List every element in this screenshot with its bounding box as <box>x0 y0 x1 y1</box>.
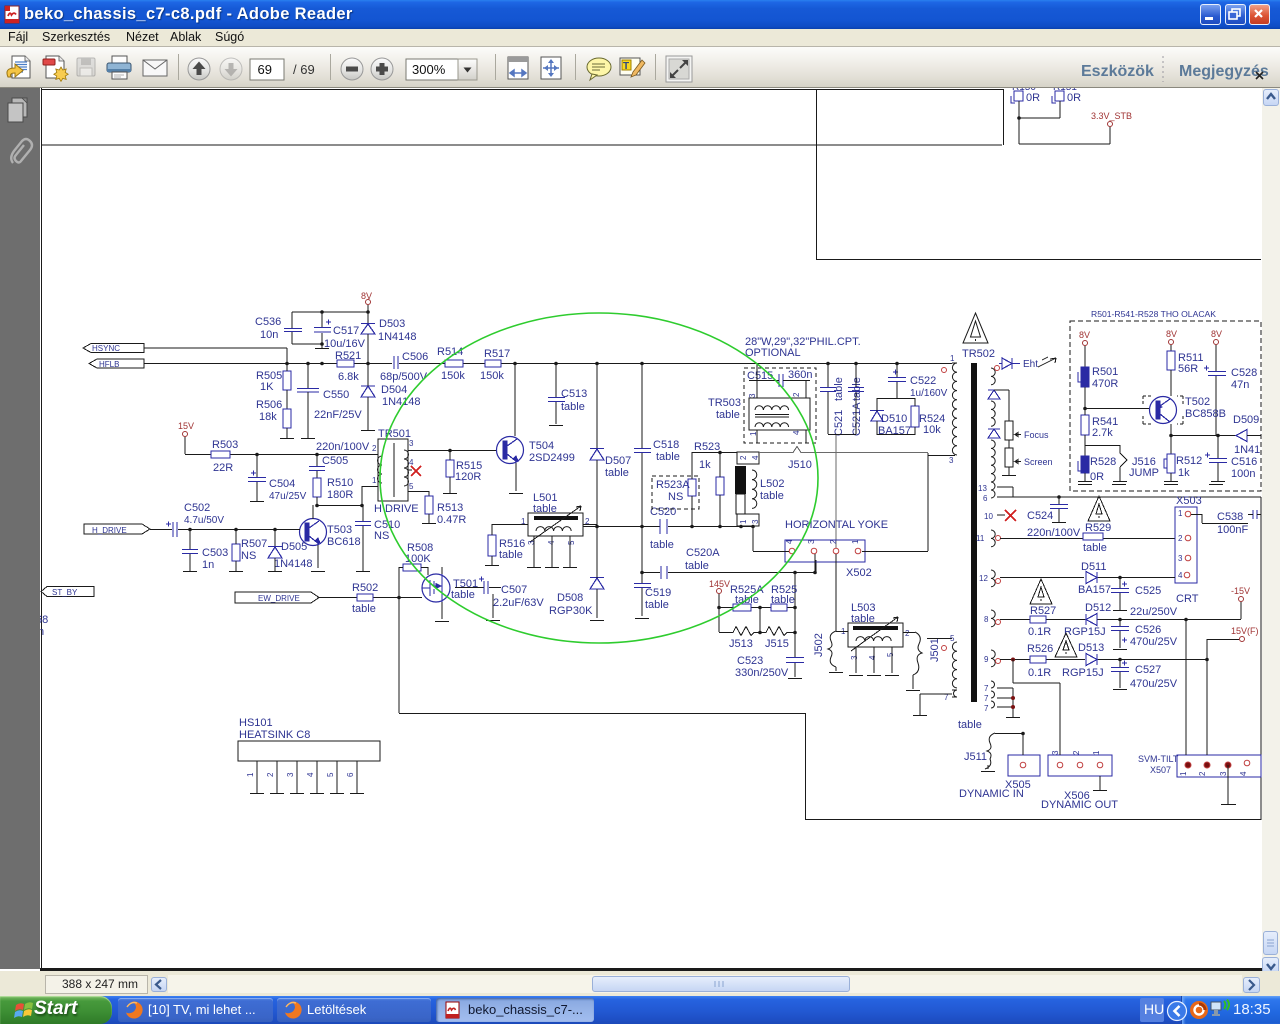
svg-text:0R: 0R <box>1026 92 1040 104</box>
svg-text:6.8k: 6.8k <box>338 371 359 383</box>
svg-text:L502: L502 <box>760 478 784 490</box>
resistor R541 2.7k <box>1081 409 1118 456</box>
HSYNC port <box>83 344 287 364</box>
svg-text:0R: 0R <box>1067 92 1081 104</box>
svg-text:Eszközök: Eszközök <box>1081 63 1154 80</box>
resistor R508 100K <box>399 542 433 575</box>
svg-text:R512: R512 <box>1176 455 1202 467</box>
resistor R505 1K <box>256 363 291 409</box>
svg-text:1N4148: 1N4148 <box>274 558 313 570</box>
svg-text:1K: 1K <box>260 381 274 393</box>
TR502 core <box>971 363 977 702</box>
svg-text:HORIZONTAL YOKE: HORIZONTAL YOKE <box>785 519 888 531</box>
svg-text:OPTIONAL: OPTIONAL <box>745 347 801 359</box>
svg-text:0.47R: 0.47R <box>437 514 466 526</box>
resistor R529 table (fusible) <box>1083 496 1111 554</box>
svg-text:table: table <box>685 560 709 572</box>
wires 0R to 3.3V_STB <box>1019 101 1110 144</box>
TR502 left winding lower + pin 5 <box>950 634 957 688</box>
second horizontal wire <box>42 144 1002 146</box>
TR502 pin 12 row: D511 <box>979 561 1175 596</box>
inductor L502 table <box>735 452 784 526</box>
separator <box>495 54 496 80</box>
diode D509 1N4148 <box>1169 414 1261 456</box>
svg-text:7: 7 <box>984 684 989 693</box>
main rail y=363 <box>144 363 952 365</box>
svg-text:Eht: Eht <box>1023 359 1038 370</box>
svg-text:CRT: CRT <box>1176 593 1199 605</box>
node -15V <box>1231 586 1250 619</box>
icon: previous view (page with yellow arrow) <box>7 56 30 78</box>
svg-text:X502: X502 <box>846 567 872 579</box>
resistor R507 NS <box>229 529 267 572</box>
svg-text:BA157: BA157 <box>878 425 911 437</box>
svg-text:1: 1 <box>246 772 255 777</box>
svg-text:C516: C516 <box>1231 456 1257 468</box>
svg-text:R506: R506 <box>256 399 282 411</box>
jumper J515 <box>754 627 797 651</box>
svg-text:D509: D509 <box>1233 414 1259 426</box>
resistor R525 table <box>771 584 797 611</box>
svg-text:5: 5 <box>567 540 576 545</box>
svg-text:J513: J513 <box>729 638 753 650</box>
svg-text:0.1R: 0.1R <box>1028 626 1051 638</box>
capacitor C513 table <box>548 363 587 426</box>
svg-text:8V: 8V <box>1211 329 1222 339</box>
svg-text:2.7k: 2.7k <box>1092 427 1113 439</box>
capacitor C504 47u/25V <box>248 454 307 502</box>
svg-text:180R: 180R <box>327 489 353 501</box>
resistor R521 6.8k <box>335 350 361 383</box>
separator <box>575 54 576 80</box>
icon: print <box>107 56 131 79</box>
resistor R517 150k <box>480 348 510 382</box>
svg-text:6: 6 <box>983 494 988 503</box>
HFLB port <box>89 359 144 369</box>
svg-text:D512: D512 <box>1085 602 1111 614</box>
resistor R513 0.47R <box>422 496 466 526</box>
svg-text:table: table <box>760 490 784 502</box>
svg-text:Focus: Focus <box>1024 430 1049 440</box>
diode D510 BA157 <box>870 398 911 437</box>
transistor T501 MOSFET <box>422 567 478 622</box>
svg-text:3: 3 <box>409 439 414 448</box>
vertical wire right of top box <box>1003 89 1005 145</box>
svg-text:145V: 145V <box>709 579 730 589</box>
svg-text:/ 69: / 69 <box>293 62 315 77</box>
svg-text:J511: J511 <box>964 751 987 763</box>
icon: zoom in <box>371 58 393 80</box>
svg-text:360n: 360n <box>788 369 812 381</box>
svg-text:R517: R517 <box>484 348 510 360</box>
svg-text:table: table <box>650 539 674 551</box>
svg-text:4: 4 <box>1178 571 1183 580</box>
svg-text:1k: 1k <box>699 459 711 471</box>
window title bar <box>0 0 1280 29</box>
svg-text:1k: 1k <box>1178 467 1190 479</box>
svg-text:T504: T504 <box>529 440 554 452</box>
capacitor C522 1u/160V <box>877 363 948 399</box>
svg-text:1: 1 <box>372 476 377 485</box>
svg-text:13: 13 <box>978 484 987 493</box>
svg-text:3: 3 <box>1051 750 1060 755</box>
TR502 pin 11 <box>976 530 1175 547</box>
svg-text:H DRIVE: H DRIVE <box>374 503 419 515</box>
ground bars in dashed box <box>1078 484 1223 486</box>
wire 8V down <box>292 305 368 348</box>
svg-text:table: table <box>656 451 680 463</box>
svg-text:12: 12 <box>979 574 988 583</box>
svg-text:47n: 47n <box>1231 379 1249 391</box>
svg-text:10k: 10k <box>923 424 941 436</box>
svg-text:2: 2 <box>1198 771 1207 776</box>
svg-text:T503: T503 <box>327 524 352 536</box>
svg-text:2: 2 <box>739 455 748 460</box>
svg-text:2: 2 <box>266 772 275 777</box>
resistor R150 0R <box>1011 82 1040 104</box>
svg-text:1: 1 <box>1179 771 1188 776</box>
tray <box>1140 998 1164 1022</box>
icon: text highlight <box>620 58 645 77</box>
separator <box>178 54 179 80</box>
svg-text:C520: C520 <box>650 506 676 518</box>
capacitor C538 100nF <box>1191 510 1261 536</box>
separator <box>655 54 656 80</box>
svg-text:1: 1 <box>1178 509 1183 518</box>
flyback TR502 symbol <box>962 313 995 360</box>
svg-text:300%: 300% <box>412 62 446 77</box>
svg-text:3: 3 <box>286 772 295 777</box>
svg-text:C521A: C521A <box>851 402 863 436</box>
resistor R511 56R <box>1167 351 1203 396</box>
svg-text:table: table <box>605 467 629 479</box>
svg-text:330n/250V: 330n/250V <box>735 667 789 679</box>
svg-text:470u/25V: 470u/25V <box>1130 678 1178 690</box>
start button <box>0 996 112 1024</box>
capacitor C528 47n <box>1204 366 1257 436</box>
svg-text:Megjegyzés: Megjegyzés <box>1179 63 1269 80</box>
svg-text:H_DRIVE: H_DRIVE <box>92 526 127 535</box>
svg-text:D507: D507 <box>605 455 631 467</box>
icon: page up (dark circle) <box>188 58 210 80</box>
svg-text:4: 4 <box>751 455 760 460</box>
svg-text:D511: D511 <box>1081 561 1106 573</box>
svg-text:10n: 10n <box>260 329 278 341</box>
icon: fullscreen <box>666 56 692 82</box>
svg-text:R510: R510 <box>327 477 353 489</box>
resistor R510 180R <box>313 477 353 505</box>
svg-text:1: 1 <box>739 519 748 524</box>
capacitor C517 <box>314 312 366 350</box>
svg-text:ST_BY: ST_BY <box>52 588 78 597</box>
svg-text:HS101: HS101 <box>239 717 273 729</box>
svg-text:C519: C519 <box>645 587 671 599</box>
svg-text:2: 2 <box>372 444 377 453</box>
capacitor C550 22nF/25V <box>297 363 362 439</box>
horizontal scrollbar thumb <box>168 975 1242 993</box>
svg-text:D503: D503 <box>379 318 405 330</box>
svg-text:18k: 18k <box>259 411 277 423</box>
ST_BY port <box>41 587 94 598</box>
svg-text:JUMP: JUMP <box>1129 467 1159 479</box>
TR502 right pins 7,7,7 <box>958 681 1020 731</box>
menu bar <box>0 29 1280 46</box>
node 8V (1) <box>1079 330 1090 367</box>
svg-text:3: 3 <box>1219 771 1228 776</box>
svg-text:R523: R523 <box>694 441 720 453</box>
svg-text:table: table <box>1083 542 1107 554</box>
svg-text:X507: X507 <box>1150 765 1171 775</box>
svg-text:4: 4 <box>306 772 315 777</box>
capacitor C524 220n/100V <box>1027 497 1081 539</box>
svg-text:3: 3 <box>748 393 757 398</box>
resistor R523A NS (dashed box) <box>652 452 699 526</box>
resistor R512 1k <box>1164 454 1202 482</box>
resistor R524 10k <box>877 398 945 436</box>
svg-text:7: 7 <box>984 704 989 713</box>
svg-text:TR503: TR503 <box>708 397 741 409</box>
wire y=607 <box>719 607 795 609</box>
svg-text:69: 69 <box>258 62 272 77</box>
jumper J511 <box>964 732 1025 772</box>
svg-text:0.1R: 0.1R <box>1028 667 1051 679</box>
svg-text:4: 4 <box>792 430 801 435</box>
svg-text:3: 3 <box>751 519 760 524</box>
svg-text:C536: C536 <box>255 316 281 328</box>
svg-text:10u/16V: 10u/16V <box>324 338 366 350</box>
resistor R523 1k <box>694 441 724 526</box>
svg-text:EW_DRIVE: EW_DRIVE <box>258 594 300 603</box>
svg-text:HFLB: HFLB <box>99 360 119 369</box>
svg-text:150k: 150k <box>441 370 465 382</box>
capacitor C525 22u/250V <box>1111 578 1178 618</box>
svg-text:15V: 15V <box>178 421 194 431</box>
svg-text:SVM-TILT: SVM-TILT <box>1138 754 1179 764</box>
svg-text:1: 1 <box>950 354 955 363</box>
svg-text:2: 2 <box>829 539 838 544</box>
svg-text:TR502: TR502 <box>962 348 995 360</box>
svg-text:C502: C502 <box>184 502 210 514</box>
svg-text:4: 4 <box>1239 771 1248 776</box>
transistor T504 2SD2499 <box>496 363 575 494</box>
capacitor C536 <box>255 316 302 341</box>
svg-text:2: 2 <box>1178 534 1183 543</box>
svg-text:10: 10 <box>984 512 993 521</box>
svg-text:7: 7 <box>984 694 989 703</box>
pin4 X mark <box>408 469 412 471</box>
jumper J502 <box>813 631 848 673</box>
svg-text:3.3V_STB: 3.3V_STB <box>1091 111 1132 121</box>
H_DRIVE port <box>84 524 150 535</box>
svg-text:C513: C513 <box>561 388 587 400</box>
svg-text:1: 1 <box>851 539 860 544</box>
wire y=572 with capacitor C520A <box>640 547 816 579</box>
svg-text:C520A: C520A <box>686 547 720 559</box>
resistor R525A table <box>730 584 764 611</box>
svg-text:RGP15J: RGP15J <box>1062 667 1104 679</box>
svg-text:3: 3 <box>527 540 536 545</box>
inductor L501 <box>492 492 597 568</box>
svg-text:C522: C522 <box>910 375 936 387</box>
wire TR501 pin3 to T504 base <box>408 450 496 452</box>
page left border <box>41 88 43 969</box>
diode D503 1N4148 <box>361 312 417 363</box>
diode D505 1N4148 <box>268 529 313 572</box>
svg-text:2: 2 <box>1072 750 1081 755</box>
svg-text:R526: R526 <box>1027 643 1053 655</box>
svg-text:8: 8 <box>984 615 989 624</box>
svg-text:table: table <box>645 599 669 611</box>
TR502 pin 9 row: R526 D513 <box>984 633 1209 679</box>
svg-text:4: 4 <box>785 539 794 544</box>
transistor T503 BC618 <box>300 505 361 572</box>
resistor R515 120R <box>443 450 482 494</box>
node 145V <box>709 579 730 607</box>
inductor L503 table <box>841 602 910 676</box>
TR502 pins 13/6 <box>978 482 1261 503</box>
wire bottom of top-right box <box>816 259 1261 261</box>
node 15V(F) <box>1207 626 1259 659</box>
svg-text:D508: D508 <box>557 592 583 604</box>
vertical scrollbar <box>1262 88 1280 975</box>
TR502 right winding with diodes <box>988 366 1000 483</box>
capacitor C516 100n <box>1205 436 1257 482</box>
svg-text:T502: T502 <box>1185 396 1210 408</box>
svg-text:15V(F): 15V(F) <box>1231 626 1259 636</box>
icon: create pdf (page with red band and star) <box>43 56 68 81</box>
Eht diode and arrow <box>999 357 1056 370</box>
diode D508 RGP30K <box>549 526 604 621</box>
svg-text:100n: 100n <box>1231 468 1255 480</box>
svg-text:1N41: 1N41 <box>1234 444 1260 456</box>
svg-text:R528: R528 <box>1090 456 1116 468</box>
node 8V (3) <box>1211 329 1222 371</box>
svg-text:4: 4 <box>868 655 877 660</box>
taskbar <box>0 996 1280 1024</box>
svg-text:R502: R502 <box>352 582 378 594</box>
top border wire <box>42 89 1004 91</box>
svg-text:R527: R527 <box>1030 605 1056 617</box>
resistor R503 22R <box>211 439 238 474</box>
zoom combo <box>406 59 458 80</box>
TR502 pin 10 with X <box>984 510 1016 521</box>
svg-text:47u/25V: 47u/25V <box>269 491 307 502</box>
connector X502 <box>753 453 928 631</box>
jumper J516 JUMP <box>1085 445 1159 482</box>
svg-text:9: 9 <box>984 655 989 664</box>
svg-text:J515: J515 <box>765 638 789 650</box>
svg-text:NS: NS <box>241 550 256 562</box>
connector X506 DYNAMIC OUT <box>1013 659 1118 811</box>
page number box <box>250 59 284 80</box>
connector X505 DYNAMIC IN <box>959 733 1040 800</box>
svg-text:C518: C518 <box>653 439 679 451</box>
svg-text:C506: C506 <box>402 351 428 363</box>
svg-text:11: 11 <box>976 534 985 543</box>
status bar <box>0 971 1280 996</box>
capacitor C523 330n/250V <box>735 632 804 679</box>
svg-text:120R: 120R <box>455 471 481 483</box>
svg-text:-15V: -15V <box>1231 586 1250 596</box>
svg-text:BA157: BA157 <box>1078 584 1111 596</box>
TR502 left pin7 <box>913 690 957 716</box>
toolbar <box>0 46 1280 88</box>
icon: zoom out <box>341 58 363 80</box>
svg-text:8V: 8V <box>1166 329 1177 339</box>
svg-text:table: table <box>833 377 845 401</box>
svg-text:150k: 150k <box>480 370 504 382</box>
TR502 left winding <box>928 354 957 465</box>
jumper J501 <box>903 632 952 691</box>
big box outline <box>399 497 1261 820</box>
ground <box>315 348 329 350</box>
svg-text:470R: 470R <box>1092 378 1118 390</box>
svg-text:T: T <box>623 61 629 72</box>
svg-text:J502: J502 <box>813 633 825 657</box>
connector X507 SVM-TILT <box>1138 619 1261 805</box>
svg-text:NS: NS <box>668 491 683 503</box>
svg-text:C526: C526 <box>1135 624 1161 636</box>
icon: email envelope <box>143 60 167 76</box>
svg-text:1u/160V: 1u/160V <box>910 388 948 399</box>
svg-text:3: 3 <box>807 539 816 544</box>
connector X503 <box>1175 495 1202 605</box>
svg-text:C550: C550 <box>323 389 349 401</box>
svg-text:BC618: BC618 <box>327 536 361 548</box>
transistor T502 BC858B <box>1083 396 1226 454</box>
heatsink HS101 <box>238 717 380 794</box>
capacitor C519 table <box>634 526 671 619</box>
svg-text:n: n <box>40 626 44 638</box>
svg-text:DYNAMIC IN: DYNAMIC IN <box>959 788 1024 800</box>
svg-text:3: 3 <box>850 655 859 660</box>
capacitor C506 68p/500V <box>380 351 428 383</box>
svg-text:table: table <box>561 401 585 413</box>
capacitor C507 2.2uF/63V <box>455 577 544 621</box>
svg-text:C538: C538 <box>1217 511 1243 523</box>
dotted separator + right labels <box>1162 56 1164 82</box>
svg-text:C524: C524 <box>1027 510 1053 522</box>
svg-text:table: table <box>451 589 475 601</box>
svg-text:HSYNC: HSYNC <box>92 344 120 353</box>
svg-text:470u/25V: 470u/25V <box>1130 636 1178 648</box>
svg-text:DYNAMIC OUT: DYNAMIC OUT <box>1041 799 1118 811</box>
svg-text:2SD2499: 2SD2499 <box>529 452 575 464</box>
diode D507 table <box>590 363 631 526</box>
resistor R151 0R <box>1052 82 1081 104</box>
svg-text:C528: C528 <box>1231 367 1257 379</box>
svg-text:BC858B: BC858B <box>1185 408 1226 420</box>
resistor R528 0R <box>1078 456 1116 483</box>
svg-text:2: 2 <box>792 392 801 397</box>
svg-text:D504: D504 <box>381 384 407 396</box>
wire TR501 pin1 to H drive node <box>317 486 378 506</box>
svg-text:68: 68 <box>40 614 48 626</box>
svg-text:J510: J510 <box>788 459 812 471</box>
svg-text:3: 3 <box>1178 554 1183 563</box>
EW_DRIVE port <box>235 592 422 603</box>
svg-text:table: table <box>352 603 376 615</box>
resistor R501 470R <box>1078 366 1118 409</box>
svg-text:C505: C505 <box>322 455 348 467</box>
svg-text:5: 5 <box>409 482 414 491</box>
svg-text:table: table <box>716 409 740 421</box>
wire TR501 pin5 to R513 <box>408 491 429 496</box>
jumper J510 + gray wire to X502 <box>759 435 928 549</box>
svg-text:100nF: 100nF <box>1217 524 1248 536</box>
svg-text:C523: C523 <box>737 655 763 667</box>
svg-text:22nF/25V: 22nF/25V <box>314 409 362 421</box>
